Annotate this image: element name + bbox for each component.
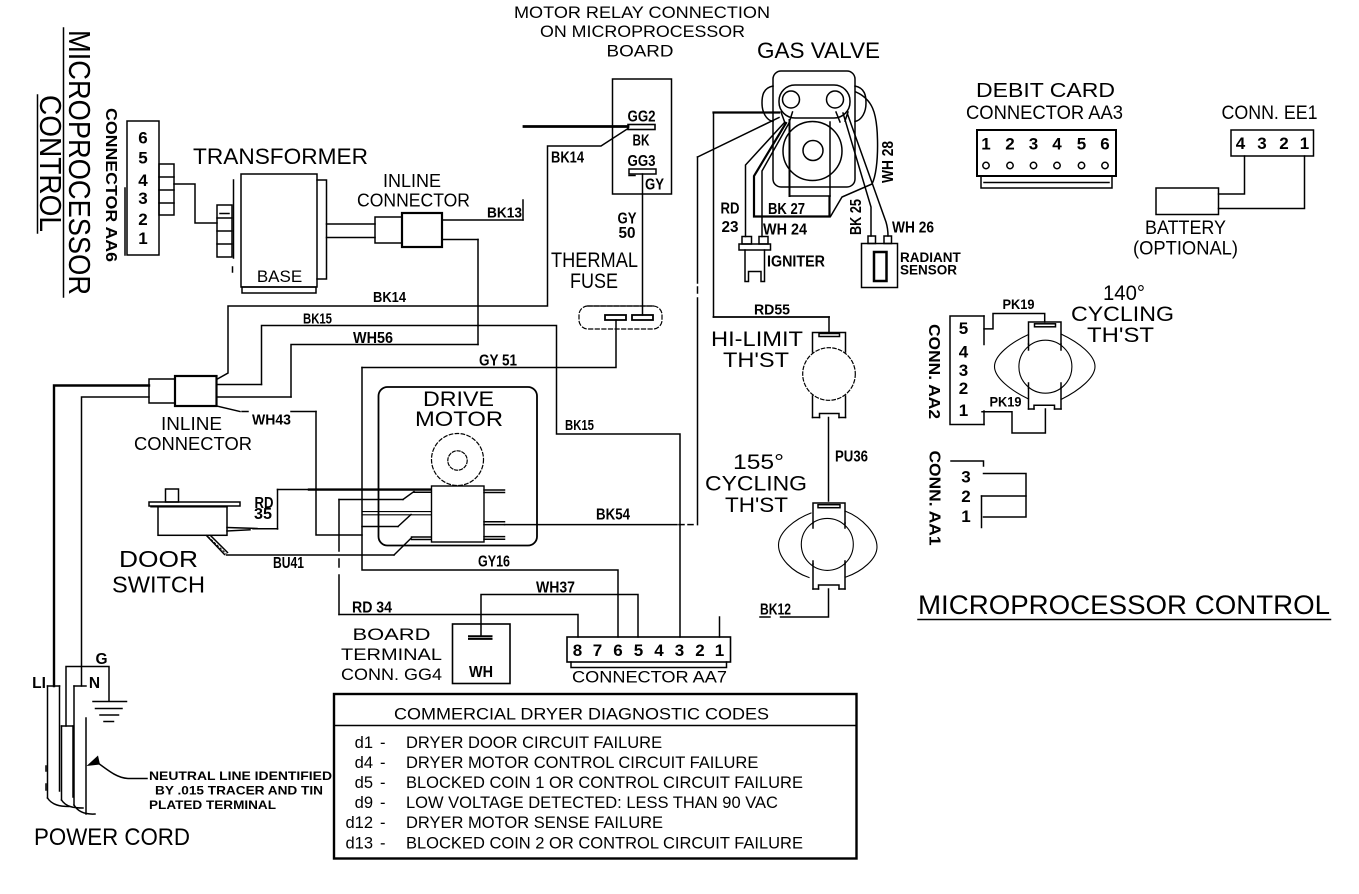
svg-text:BLOCKED COIN 2 OR CONTROL CIRC: BLOCKED COIN 2 OR CONTROL CIRCUIT FAILUR… — [406, 835, 803, 853]
neutral note text — [149, 769, 332, 812]
wire inline connector to WH56 riser — [442, 240, 478, 345]
radiant sensor label — [900, 250, 961, 278]
GG4 terminal bar — [469, 636, 492, 639]
svg-text:CYCLING: CYCLING — [705, 473, 807, 496]
svg-text:CONN. GG4: CONN. GG4 — [341, 665, 442, 684]
wire to BK15 riser — [217, 384, 262, 386]
door switch right terminal — [227, 528, 257, 532]
svg-text:TH'ST: TH'ST — [723, 349, 789, 372]
svg-text:5: 5 — [1077, 135, 1086, 154]
svg-text:1: 1 — [961, 507, 970, 526]
transformer body — [233, 174, 327, 293]
motor right stubs — [484, 490, 505, 539]
thermal fuse label — [551, 249, 638, 293]
svg-text:2: 2 — [695, 641, 704, 660]
svg-text:5: 5 — [959, 319, 968, 338]
svg-text:N: N — [89, 675, 100, 692]
svg-text:NEUTRAL LINE IDENTIFIED: NEUTRAL LINE IDENTIFIED — [149, 769, 332, 783]
connector AA7 tray — [571, 662, 727, 668]
wire GY contact (double) — [362, 512, 432, 527]
svg-text:TERMINAL: TERMINAL — [341, 645, 442, 664]
svg-text:8: 8 — [573, 641, 582, 660]
svg-text:5: 5 — [634, 641, 643, 660]
svg-text:BOARD: BOARD — [353, 625, 431, 644]
door switch plate — [149, 502, 240, 507]
svg-text:BASE: BASE — [257, 267, 302, 286]
connector AA6 pin numbers 6 5 4 3 2 1 — [138, 129, 148, 249]
transformer BASE label — [257, 267, 302, 286]
wire RD 23 — [721, 123, 785, 237]
radiant sensor element — [874, 252, 887, 281]
label MICROPROCESSOR CONTROL (rotated left title) — [33, 28, 97, 297]
inline connector (lower) body — [149, 376, 217, 406]
drive motor rotor circle (dashed) — [432, 434, 484, 486]
battery label — [1133, 218, 1238, 260]
svg-text:RD 34: RD 34 — [352, 600, 392, 617]
svg-text:TRANSFORMER: TRANSFORMER — [193, 144, 368, 169]
svg-text:CONNECTOR: CONNECTOR — [357, 191, 470, 211]
svg-text:MOTOR: MOTOR — [415, 408, 503, 431]
140 cycling thermostat label — [1071, 282, 1174, 347]
wire BU41 blade contact — [394, 537, 432, 555]
hi-limit thermostat bottom terminal — [813, 396, 846, 418]
radiant sensor body — [862, 244, 898, 288]
wire WH37 — [481, 580, 638, 638]
relay board box — [613, 79, 672, 194]
inline connector (upper) label — [357, 171, 470, 211]
conn AA1 label (rotated) — [926, 451, 943, 546]
label BK — [633, 133, 651, 150]
svg-text:6: 6 — [138, 129, 147, 148]
transformer winding comb — [217, 205, 232, 257]
wire LI (thick) to power cord — [54, 386, 149, 687]
drive motor label — [415, 388, 503, 431]
wire PK19 bottom — [982, 394, 1045, 434]
terminal GG2 bar — [628, 125, 655, 130]
door switch lever — [207, 536, 228, 555]
155 cycling thermostat label — [705, 451, 807, 517]
wire N to power cord — [82, 397, 150, 686]
conn AA2 label (rotated) — [925, 324, 942, 419]
microprocessor control heading — [918, 590, 1331, 620]
diagnostic codes title — [394, 705, 769, 724]
wire to WH56 riser — [217, 396, 292, 398]
gas valve coil circle left — [783, 91, 800, 108]
ground symbol — [93, 702, 127, 722]
svg-text:1: 1 — [1300, 134, 1309, 153]
wire BK 27 — [754, 123, 830, 218]
label GY — [645, 177, 665, 194]
igniter fork — [745, 250, 765, 282]
svg-text:MICROPROCESSOR CONTROL: MICROPROCESSOR CONTROL — [918, 590, 1330, 620]
wire G bracket — [66, 667, 109, 727]
connector AA6 label (rotated) — [102, 108, 119, 262]
radiant sensor posts — [868, 236, 892, 244]
wire WH 24 — [762, 123, 807, 239]
svg-text:BATTERY: BATTERY — [1145, 218, 1226, 239]
svg-text:WH 26: WH 26 — [892, 220, 934, 237]
svg-text:G: G — [95, 651, 107, 668]
gas valve body — [773, 71, 855, 187]
svg-text:2: 2 — [138, 210, 147, 229]
svg-text:SWITCH: SWITCH — [112, 572, 205, 598]
svg-text:CONN. AA1: CONN. AA1 — [926, 451, 943, 546]
155 thermostat top terminal — [813, 503, 845, 523]
gas valve right ear — [855, 86, 866, 122]
connector EE1 pin numbers 4 3 2 1 — [1236, 134, 1309, 153]
svg-text:3: 3 — [1029, 135, 1038, 154]
svg-text:2: 2 — [1005, 135, 1014, 154]
wire WH56 — [291, 330, 478, 397]
svg-text:BK13: BK13 — [487, 205, 522, 222]
155 thermostat bimetal eye — [779, 511, 878, 578]
wire GY16 — [362, 368, 618, 638]
door switch body — [158, 507, 227, 536]
drive motor shaft circle (dashed) — [448, 451, 467, 470]
svg-text:7: 7 — [593, 641, 602, 660]
svg-text:d5: d5 — [355, 774, 373, 792]
svg-text:BK54: BK54 — [596, 507, 630, 524]
gas valve left terminal stub — [781, 112, 793, 123]
svg-text:BK 25: BK 25 — [848, 199, 865, 235]
connector AA1 pin wires — [982, 474, 1027, 518]
svg-text:WH37: WH37 — [536, 580, 575, 597]
debit card title — [966, 80, 1123, 124]
svg-text:50: 50 — [619, 225, 636, 242]
svg-text:3: 3 — [1257, 134, 1266, 153]
wire BK 25 — [843, 113, 871, 236]
inline connector (lower) label — [134, 414, 252, 454]
svg-text:2: 2 — [1279, 134, 1288, 153]
label G — [95, 651, 107, 668]
svg-text:WH 24: WH 24 — [763, 222, 807, 239]
wire AA6 to transformer — [174, 184, 217, 223]
wire RD 35 contact (thick) — [309, 490, 432, 500]
conn EE1 title — [1222, 103, 1318, 124]
155 thermostat disc circle — [801, 518, 853, 570]
connector AA2 pin numbers 5 4 3 2 1 — [959, 319, 969, 420]
svg-text:RD55: RD55 — [754, 302, 790, 319]
svg-text:4: 4 — [138, 171, 148, 190]
svg-text:PK19: PK19 — [990, 394, 1022, 410]
svg-text:PK19: PK19 — [1003, 296, 1035, 312]
svg-text:CONNECTOR AA6: CONNECTOR AA6 — [102, 108, 119, 262]
svg-text:2: 2 — [961, 487, 970, 506]
igniter plate — [739, 244, 771, 250]
wire EE1 pin4 to battery — [1219, 156, 1245, 194]
svg-text:5: 5 — [138, 149, 147, 168]
connector AA6 pin comb — [159, 164, 174, 215]
wire BK15 — [262, 311, 681, 638]
gas valve top stadium — [779, 85, 850, 118]
wire GY 51 — [362, 320, 616, 370]
svg-text:23: 23 — [722, 219, 739, 236]
svg-text:4: 4 — [959, 343, 969, 362]
svg-text:CONN. AA2: CONN. AA2 — [925, 324, 942, 419]
svg-text:d4: d4 — [355, 754, 373, 772]
svg-text:4: 4 — [1052, 135, 1062, 154]
igniter posts — [742, 237, 768, 245]
wire BK54 to gas valve (diagonal+riser) — [698, 118, 780, 525]
power cord prong N — [74, 686, 95, 814]
svg-text:CONNECTOR: CONNECTOR — [134, 434, 252, 454]
gas valve right terminal stub — [836, 112, 848, 122]
svg-text:LOW VOLTAGE DETECTED: LESS THA: LOW VOLTAGE DETECTED: LESS THAN 90 VAC — [406, 794, 778, 812]
svg-text:BK12: BK12 — [760, 602, 791, 619]
wire BK12 — [720, 589, 829, 637]
connector AA3 pin numbers 1-6 — [981, 135, 1109, 154]
gas valve label — [757, 38, 880, 63]
wire PK19 top — [984, 296, 1045, 329]
140 thermostat bottom terminal — [1029, 388, 1062, 409]
svg-text:140°: 140° — [1103, 282, 1145, 305]
svg-text:3: 3 — [675, 641, 684, 660]
svg-text:(OPTIONAL): (OPTIONAL) — [1133, 239, 1238, 260]
transformer label — [193, 144, 368, 169]
svg-text:d13: d13 — [345, 835, 373, 853]
svg-text:GY 51: GY 51 — [479, 353, 517, 370]
wire BK14 — [217, 129, 629, 380]
svg-text:BY .015 TRACER AND TIN: BY .015 TRACER AND TIN — [155, 784, 323, 798]
igniter label — [767, 254, 825, 271]
svg-text:DOOR: DOOR — [119, 546, 198, 572]
svg-text:4: 4 — [654, 641, 664, 660]
svg-text:WH56: WH56 — [353, 330, 393, 347]
wire RD 35 — [253, 490, 309, 530]
board terminal GG4 box — [453, 624, 511, 684]
door switch label — [112, 546, 205, 598]
svg-text:GAS VALVE: GAS VALVE — [757, 38, 880, 63]
GG4 WH label — [469, 664, 493, 681]
140 thermostat disc circle — [1019, 340, 1072, 393]
terminal GG3 bar — [629, 169, 656, 176]
connector AA7 pin numbers 8-1 — [573, 641, 724, 660]
svg-text:FUSE: FUSE — [570, 270, 618, 293]
svg-text:GY16: GY16 — [478, 554, 510, 571]
svg-text:3: 3 — [961, 468, 970, 487]
terminal GG3 label — [628, 153, 656, 170]
svg-text:WH43: WH43 — [252, 412, 291, 429]
inline connector (upper) body — [375, 213, 442, 247]
svg-text:BK14: BK14 — [373, 289, 407, 306]
wire BK (thick) to GG2 — [524, 125, 628, 128]
svg-text:MOTOR RELAY CONNECTION: MOTOR RELAY CONNECTION — [514, 4, 770, 22]
svg-text:DRYER MOTOR CONTROL CIRCUIT FA: DRYER MOTOR CONTROL CIRCUIT FAILURE — [406, 754, 758, 772]
wire RD55 — [714, 113, 830, 333]
svg-text:-: - — [380, 734, 386, 752]
svg-text:RD: RD — [721, 201, 740, 218]
wire WH 26 — [848, 114, 935, 237]
connector AA3 pin holes — [983, 162, 1108, 168]
thermal fuse right terminal — [632, 315, 653, 320]
svg-text:3: 3 — [138, 189, 147, 208]
svg-text:1: 1 — [981, 135, 990, 154]
svg-text:BK: BK — [633, 133, 651, 150]
155 thermostat body sides — [813, 523, 845, 564]
wire GY 50 riser — [618, 174, 643, 315]
drive motor box — [379, 387, 538, 546]
motor terminal block — [432, 486, 485, 542]
140 thermostat bimetal eye — [995, 334, 1096, 400]
svg-text:CYCLING: CYCLING — [1071, 303, 1174, 326]
svg-text:1: 1 — [138, 229, 147, 248]
power cord prong LI — [46, 686, 69, 807]
svg-text:BK15: BK15 — [303, 311, 332, 328]
svg-text:-: - — [380, 754, 386, 772]
hi-limit thermostat label — [711, 328, 803, 372]
power cord label — [34, 824, 190, 851]
terminal GG2 label — [628, 109, 656, 126]
wire WH43 — [217, 406, 363, 535]
svg-text:-: - — [380, 774, 386, 792]
connector AA6 body — [125, 121, 159, 255]
svg-text:-: - — [380, 814, 386, 832]
hi-limit thermostat disc (dashed circle) — [803, 348, 856, 401]
gas valve center circle — [803, 141, 823, 161]
wire BK13 — [442, 200, 523, 222]
svg-text:4: 4 — [1236, 134, 1246, 153]
svg-text:GY: GY — [645, 177, 665, 194]
board terminal GG4 label — [341, 625, 442, 684]
svg-text:LI: LI — [32, 675, 46, 692]
svg-text:CONNECTOR AA3: CONNECTOR AA3 — [966, 103, 1123, 124]
motor relay connection title — [514, 4, 770, 61]
svg-text:INLINE: INLINE — [161, 414, 222, 434]
door switch button — [166, 489, 179, 502]
svg-text:GG3: GG3 — [628, 153, 656, 170]
svg-text:-: - — [380, 794, 386, 812]
svg-text:BK14: BK14 — [551, 150, 584, 167]
wire BU41 — [227, 555, 395, 572]
svg-text:DRYER DOOR CIRCUIT FAILURE: DRYER DOOR CIRCUIT FAILURE — [406, 734, 662, 752]
wire RD 34 riser (with crossing gaps) — [338, 500, 340, 615]
svg-text:POWER CORD: POWER CORD — [34, 824, 190, 851]
wire transformer to inline connector (double) — [327, 224, 376, 238]
connector EE1 box — [1231, 130, 1314, 156]
wire WH 28 (outline) — [831, 92, 898, 217]
diagnostic codes rows — [345, 734, 803, 853]
svg-text:d9: d9 — [355, 794, 373, 812]
svg-text:BK 27: BK 27 — [768, 201, 805, 218]
svg-text:DEBIT CARD: DEBIT CARD — [976, 80, 1115, 102]
wire EE1 pin1 to battery — [1219, 156, 1305, 209]
svg-text:TH'ST: TH'ST — [725, 494, 788, 517]
neutral arrow — [87, 756, 148, 779]
svg-text:IGNITER: IGNITER — [767, 254, 825, 271]
power cord prong G — [62, 726, 84, 808]
svg-text:BK15: BK15 — [565, 417, 594, 434]
svg-text:CONNECTOR AA7: CONNECTOR AA7 — [572, 668, 727, 687]
svg-text:BOARD: BOARD — [607, 43, 674, 61]
gas valve lower body lines — [790, 120, 831, 196]
svg-text:THERMAL: THERMAL — [551, 249, 638, 272]
label N — [89, 675, 100, 692]
wire BK54 — [505, 507, 694, 525]
svg-text:DRYER MOTOR SENSE FAILURE: DRYER MOTOR SENSE FAILURE — [406, 814, 663, 832]
svg-text:2: 2 — [959, 379, 968, 398]
svg-text:GG2: GG2 — [628, 109, 656, 126]
svg-text:BLOCKED COIN 1 OR CONTROL CIRC: BLOCKED COIN 1 OR CONTROL CIRCUIT FAILUR… — [406, 774, 803, 792]
gas valve left ear — [762, 86, 773, 122]
gas valve main circle — [783, 122, 842, 181]
svg-text:6: 6 — [1100, 135, 1109, 154]
svg-text:SENSOR: SENSOR — [900, 263, 957, 278]
connector AA3 tray — [981, 176, 1112, 188]
svg-text:-: - — [380, 835, 386, 853]
thermal fuse left terminal — [605, 315, 626, 320]
wire PU36 — [829, 418, 869, 502]
svg-text:WH: WH — [469, 664, 493, 681]
155 thermostat bottom terminal — [813, 564, 845, 589]
label LI — [32, 675, 46, 692]
wire RD 34 — [339, 600, 578, 638]
connector AA3 box — [977, 130, 1116, 176]
svg-text:TH'ST: TH'ST — [1087, 324, 1154, 347]
svg-text:HI-LIMIT: HI-LIMIT — [711, 328, 803, 351]
svg-text:PLATED TERMINAL: PLATED TERMINAL — [149, 798, 276, 812]
diagnostic codes box — [334, 694, 857, 859]
connector AA1 body — [951, 461, 984, 528]
svg-text:35: 35 — [254, 506, 272, 523]
svg-text:COMMERCIAL DRYER DIAGNOSTIC CO: COMMERCIAL DRYER DIAGNOSTIC CODES — [394, 705, 769, 724]
140 thermostat top terminal — [1029, 322, 1062, 344]
svg-text:3: 3 — [959, 361, 968, 380]
hi-limit thermostat top terminal — [813, 333, 846, 353]
connector AA2 body — [950, 316, 984, 425]
connector AA7 label — [572, 668, 727, 687]
svg-text:1: 1 — [715, 641, 724, 660]
svg-text:INLINE: INLINE — [383, 171, 441, 191]
thermal fuse body (dashed) — [579, 306, 662, 329]
svg-text:1: 1 — [959, 401, 968, 420]
140 thermostat body sides — [1029, 344, 1062, 388]
svg-text:6: 6 — [613, 641, 622, 660]
svg-text:ON MICROPROCESSOR: ON MICROPROCESSOR — [540, 23, 745, 41]
battery body — [1156, 188, 1219, 215]
svg-text:BU41: BU41 — [273, 555, 304, 572]
svg-text:WH 28: WH 28 — [880, 141, 897, 183]
svg-text:PU36: PU36 — [835, 449, 868, 466]
svg-text:d12: d12 — [345, 814, 373, 832]
svg-text:155°: 155° — [733, 451, 784, 474]
gas valve coil circle right — [827, 91, 844, 108]
connector AA7 box — [567, 637, 731, 662]
connector AA1 pin numbers 3 2 1 — [961, 468, 970, 527]
svg-text:CONN. EE1: CONN. EE1 — [1222, 103, 1318, 124]
svg-text:d1: d1 — [355, 734, 373, 752]
